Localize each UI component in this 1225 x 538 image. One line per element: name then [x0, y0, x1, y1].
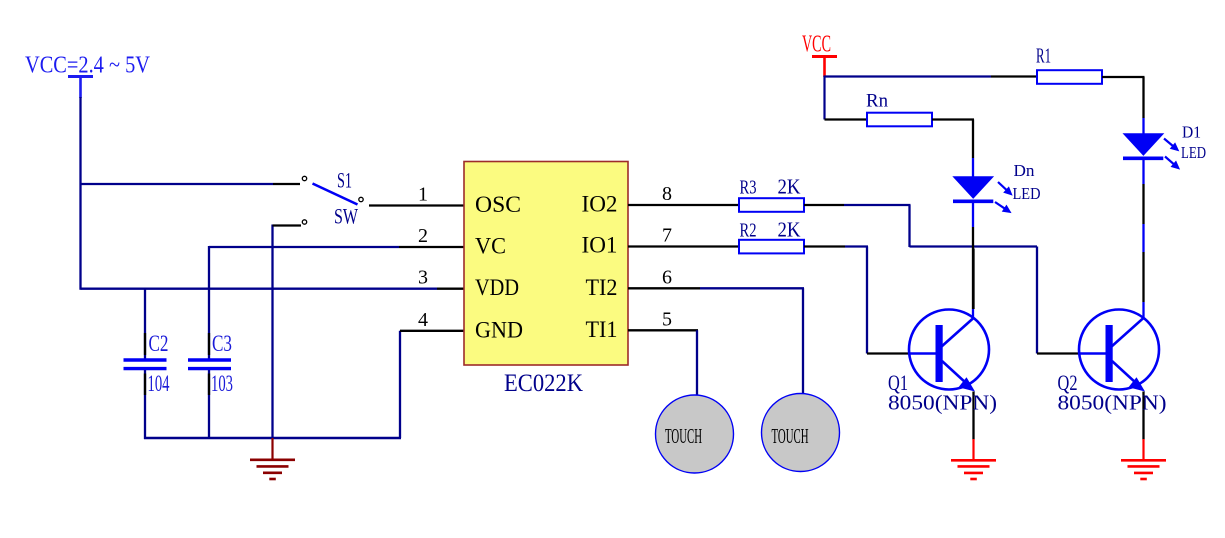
- svg-text:8050(NPN): 8050(NPN): [888, 391, 997, 415]
- svg-text:GND: GND: [475, 317, 523, 342]
- svg-text:IO1: IO1: [582, 233, 618, 258]
- svg-text:VDD: VDD: [475, 275, 519, 300]
- svg-text:VCC: VCC: [802, 32, 831, 58]
- svg-text:S1: S1: [337, 168, 352, 193]
- svg-text:VCC=2.4 ~ 5V: VCC=2.4 ~ 5V: [25, 53, 151, 79]
- svg-text:2: 2: [418, 225, 428, 247]
- svg-text:7: 7: [662, 225, 672, 247]
- svg-text:Dn: Dn: [1014, 161, 1036, 180]
- svg-text:IO2: IO2: [582, 192, 618, 217]
- svg-text:EC022K: EC022K: [504, 370, 583, 397]
- svg-text:8: 8: [662, 183, 672, 205]
- svg-text:VC: VC: [475, 234, 506, 259]
- svg-text:5: 5: [662, 308, 672, 330]
- svg-text:3: 3: [418, 267, 428, 289]
- svg-text:TI1: TI1: [586, 317, 618, 342]
- svg-text:2K: 2K: [778, 218, 801, 242]
- svg-text:LED: LED: [1181, 143, 1206, 162]
- svg-text:4: 4: [418, 309, 428, 331]
- svg-text:C2: C2: [149, 331, 169, 356]
- svg-text:1: 1: [418, 184, 428, 206]
- svg-text:8050(NPN): 8050(NPN): [1058, 391, 1167, 415]
- svg-text:103: 103: [211, 371, 233, 396]
- svg-text:D1: D1: [1182, 123, 1201, 142]
- svg-text:LED: LED: [1013, 184, 1041, 203]
- svg-text:6: 6: [662, 266, 672, 288]
- svg-text:C3: C3: [212, 331, 232, 356]
- svg-text:SW: SW: [334, 204, 358, 229]
- svg-text:R3: R3: [740, 177, 757, 199]
- svg-text:TI2: TI2: [586, 275, 618, 300]
- svg-text:R2: R2: [740, 220, 757, 242]
- svg-text:104: 104: [148, 371, 170, 396]
- svg-text:TOUCH: TOUCH: [772, 424, 809, 448]
- svg-text:TOUCH: TOUCH: [665, 424, 702, 448]
- svg-text:OSC: OSC: [475, 192, 521, 217]
- svg-text:2K: 2K: [778, 175, 801, 199]
- svg-text:R1: R1: [1036, 44, 1051, 68]
- svg-text:Rn: Rn: [866, 91, 888, 112]
